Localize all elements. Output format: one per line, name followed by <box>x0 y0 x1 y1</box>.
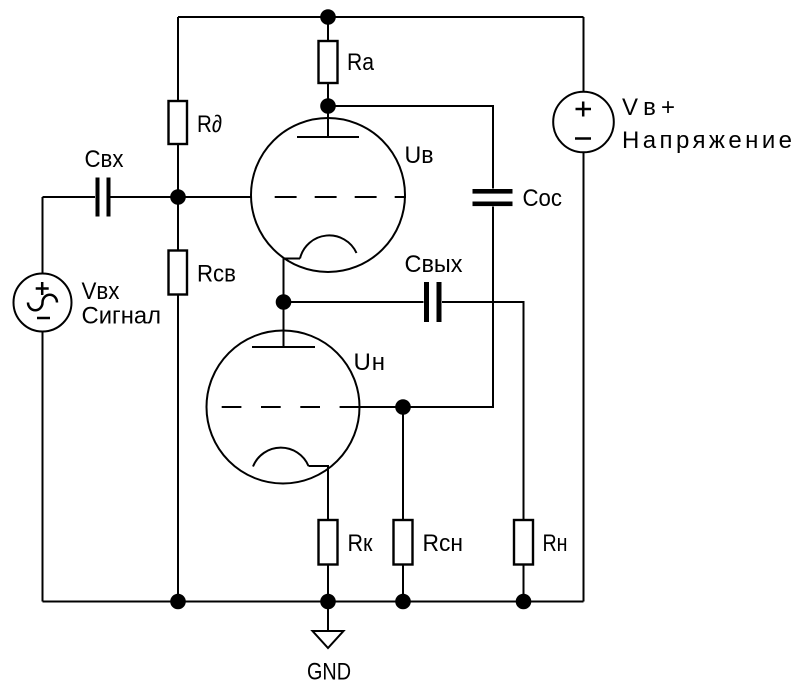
svg-text:Ra: Ra <box>347 49 375 76</box>
svg-text:Сос: Сос <box>523 185 563 212</box>
svg-text:Uн: Uн <box>354 349 386 376</box>
svg-text:Vв+: Vв+ <box>622 94 675 121</box>
svg-text:Rн: Rн <box>543 530 568 557</box>
svg-text:GND: GND <box>307 659 351 686</box>
svg-text:Свх: Свх <box>85 146 124 173</box>
svg-text:Rк: Rк <box>348 530 373 557</box>
svg-text:Rсв: Rсв <box>197 261 236 288</box>
svg-text:Сигнал: Сигнал <box>82 303 162 330</box>
svg-text:Свых: Свых <box>405 251 463 278</box>
svg-text:R∂: R∂ <box>197 111 222 138</box>
svg-text:Rсн: Rсн <box>423 530 464 557</box>
svg-text:Vвх: Vвх <box>82 278 120 305</box>
svg-text:Uв: Uв <box>405 142 434 169</box>
